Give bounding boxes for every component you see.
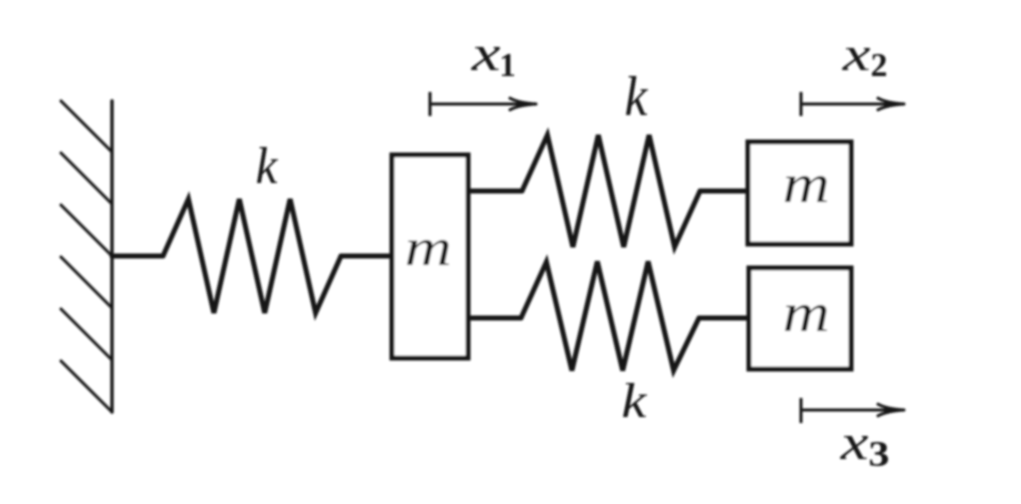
mass m1 box [392,155,468,358]
label m2 (m) [785,176,827,202]
coordinate x1 arrow [430,103,532,106]
label x3x (x) [840,436,868,459]
wall [110,101,113,412]
spring k3 [521,262,699,371]
label x2x (x) [842,48,870,70]
spring k2 [522,135,700,247]
label x1x (x) [471,47,500,70]
coordinate x2 tick [800,92,803,116]
label m3 (m) [785,305,827,331]
label x1s (1) [502,54,514,76]
mass m3 box [749,268,851,369]
coordinate x1 tick [429,92,432,116]
wire spring k3 to mass 3 [699,316,750,321]
label k2 (k) [626,76,648,115]
mass m2 box [748,142,851,244]
spring k1 [163,199,341,313]
coordinate x2 arrow [801,103,900,106]
wire mass 1 to spring k2 [468,189,522,194]
coordinate x3 arrow [801,409,900,412]
label x3s (3) [870,442,888,466]
label k3 (k) [623,383,647,417]
wire spring k1 to mass 1 [341,254,392,259]
label x2s (2) [872,54,886,76]
label m1 (m) [407,240,449,265]
wire spring k2 to mass 2 [700,189,748,194]
wire wall to spring k1 [112,254,163,259]
wire mass 1 to spring k3 [468,316,521,321]
wall hatching [61,101,112,412]
label k1 (k) [257,147,278,183]
coordinate x3 tick [800,398,803,423]
